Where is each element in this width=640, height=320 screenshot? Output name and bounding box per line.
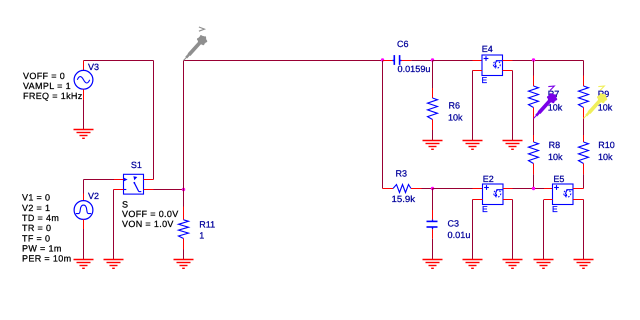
E2 inverting input pin: [473, 199, 483, 201]
probe marker purple voltage probe on R7: [534, 84, 558, 118]
junction node: [431, 58, 434, 61]
svg-text:10k: 10k: [548, 152, 563, 162]
E-source E4 body: [482, 55, 503, 76]
capacitor C3: [427, 210, 438, 239]
svg-text:10k: 10k: [598, 103, 613, 113]
wire down to R3: [382, 61, 384, 189]
svg-text:S1: S1: [131, 160, 142, 170]
wire node to R11: [183, 190, 185, 207]
wire S1 output to node: [154, 189, 184, 191]
wire probe node vertical: [183, 61, 185, 190]
svg-text:R8: R8: [549, 140, 561, 150]
svg-text:E: E: [482, 75, 488, 85]
wire R6 to ground: [432, 130, 434, 141]
wire down to R9: [583, 61, 585, 76]
ground below E2 out-: [503, 260, 523, 269]
ground below E4 in-: [463, 141, 483, 150]
wire R11 to ground: [183, 250, 185, 260]
svg-text:10k: 10k: [598, 152, 613, 162]
wire R10 to E5 output: [583, 174, 585, 188]
svg-text:0.0159u: 0.0159u: [398, 64, 431, 74]
ground below E5 out-: [574, 260, 594, 269]
resistor R11: [179, 207, 189, 250]
wire C3 to ground: [432, 239, 434, 260]
svg-text:SVOFF = 0.0VVON = 1.0V: SVOFF = 0.0VVON = 1.0V: [122, 199, 179, 229]
wire V2 top to S1: [83, 180, 85, 194]
wire E5 in- to ground: [543, 200, 545, 260]
svg-text:R11: R11: [199, 219, 215, 229]
resistor R3: [383, 185, 422, 193]
svg-text:15.9k: 15.9k: [392, 194, 416, 204]
switch S1 body: [114, 174, 154, 194]
resistor R9: [579, 76, 589, 119]
ground below R11: [174, 260, 194, 269]
svg-text:E5: E5: [553, 174, 564, 184]
wire V3 top rail: [84, 60, 154, 62]
ground below V3: [74, 130, 94, 139]
svg-text:C6: C6: [397, 39, 409, 49]
junction node: [381, 58, 384, 61]
ground below S1: [104, 260, 124, 269]
wire E2 out- to ground: [512, 200, 514, 260]
junction node: [532, 58, 535, 61]
wire main top rail: [184, 60, 383, 62]
E5 output pins: [573, 188, 584, 190]
wire E2 output to E5 input: [513, 188, 545, 190]
wire node to C3: [432, 189, 434, 211]
svg-text:1: 1: [199, 230, 204, 240]
ground below V2: [74, 260, 94, 269]
ground below R6: [423, 141, 443, 150]
wire C6 to R6 node: [411, 60, 432, 62]
E-source E2 body: [483, 184, 504, 205]
ground below C3: [423, 260, 443, 269]
wire node to R7: [533, 61, 535, 76]
ground below E4 out-: [503, 141, 523, 150]
svg-text:10k: 10k: [548, 103, 563, 113]
wire E4 out- to ground: [512, 71, 514, 141]
wire R8 to node: [533, 174, 535, 188]
wire S1 lower-left to ground: [113, 190, 115, 260]
svg-text:V1 = 0V2 = 1TD = 4mTR = 0TF =: V1 = 0V2 = 1TD = 4mTR = 0TF = 0PW = 1mPE…: [22, 193, 71, 264]
wire V3 to ground: [83, 100, 85, 130]
wire E4 output rail: [513, 60, 584, 62]
wire E5 out- to ground: [583, 200, 585, 260]
svg-text:E: E: [482, 204, 488, 214]
ground below E5 in-: [534, 260, 554, 269]
E4 inverting input pin: [473, 70, 483, 72]
svg-text:E: E: [552, 204, 558, 214]
wire node to R6: [432, 61, 434, 89]
wire R3 to node: [422, 188, 433, 190]
svg-text:VOFF = 0VAMPL = 1FREQ = 1kHz: VOFF = 0VAMPL = 1FREQ = 1kHz: [23, 71, 83, 101]
svg-text:0.01u: 0.01u: [448, 230, 471, 240]
resistor R10: [579, 135, 589, 174]
svg-text:V2: V2: [88, 191, 99, 201]
wire E2 in- to ground: [472, 200, 474, 260]
wire V2 to ground: [83, 229, 85, 260]
svg-text:C3: C3: [448, 218, 460, 228]
junction node: [182, 188, 185, 191]
probe marker yellow voltage probe on R9: [584, 84, 608, 118]
wire R9 to R10: [583, 119, 585, 136]
wire node to E2 input: [433, 188, 473, 190]
resistor R7: [529, 76, 539, 119]
svg-text:10k: 10k: [448, 112, 463, 122]
svg-text:E2: E2: [483, 174, 494, 184]
probe marker gray wire pencil: [184, 27, 208, 61]
E4 output pins: [503, 60, 513, 62]
wire E4 in- to ground: [472, 71, 474, 141]
resistor R6: [428, 88, 438, 130]
E2 output pins: [503, 188, 513, 190]
svg-text:R3: R3: [396, 169, 408, 179]
source V2 body: [74, 194, 93, 230]
resistor R8: [529, 135, 539, 174]
svg-text:R6: R6: [449, 100, 461, 110]
wire R7 to R8: [533, 119, 535, 136]
source V3 body: [74, 61, 93, 101]
svg-text:R10: R10: [598, 140, 615, 150]
E5 inverting input pin: [544, 199, 553, 201]
E-source E5 body: [553, 184, 574, 205]
wire down to S1 control pin: [153, 61, 155, 180]
junction node: [431, 187, 434, 190]
wire node to E4 input: [433, 60, 473, 62]
capacitor C6: [383, 55, 411, 65]
ground below E2 in-: [463, 260, 483, 269]
junction node: [532, 187, 535, 190]
svg-text:V3: V3: [88, 62, 99, 72]
svg-text:E4: E4: [482, 44, 493, 54]
